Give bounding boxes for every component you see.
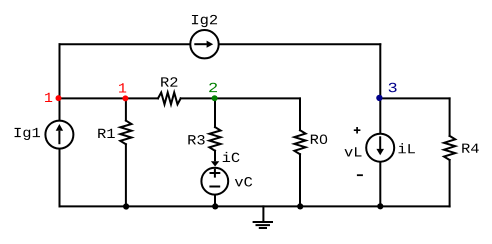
wire: top rail — [60, 43, 381, 45]
wire: R4 branch bottom — [449, 160, 451, 206]
wire: node3 to R4 top — [380, 97, 449, 99]
wire: node1 to R2 left — [60, 97, 159, 99]
label R3 — [188, 135, 204, 145]
wire: R1 branch top — [125, 98, 127, 120]
resistor R0 — [294, 130, 305, 154]
label Ig2 — [192, 15, 217, 27]
resistor R3 — [209, 127, 220, 151]
wire: bottom rail — [60, 205, 450, 207]
node 1 label (left) — [45, 93, 52, 102]
label R2 — [161, 77, 177, 86]
wire: R0 branch bottom — [299, 154, 301, 206]
node 2 label — [209, 83, 217, 92]
junction dot vC bottom — [212, 203, 218, 209]
junction dot R1 bottom — [123, 203, 129, 209]
node 3 dot — [376, 95, 382, 101]
wire: R0 branch top — [299, 98, 301, 130]
junction dot iL bottom — [377, 203, 383, 209]
current source Ig2 — [190, 30, 218, 58]
current source Ig1 — [45, 121, 73, 149]
node 1 label (at R1) — [119, 83, 126, 92]
wire: R1 branch bottom — [125, 144, 127, 206]
wire: right vertical through iL (node 3) — [379, 44, 381, 206]
label iL — [398, 143, 414, 153]
resistor R2 — [158, 93, 181, 105]
label R0 — [311, 135, 327, 145]
ground — [254, 206, 272, 228]
label vC — [235, 177, 252, 187]
label R4 — [462, 144, 478, 153]
wire: left vertical through Ig1 — [59, 44, 61, 206]
plus sign (vL polarity) — [354, 127, 361, 134]
current source iL — [366, 134, 394, 162]
voltage source vC — [201, 168, 228, 195]
wire: vC bottom to rail — [214, 196, 216, 207]
label vL — [345, 147, 362, 156]
wire: R2 right to R0 branch — [181, 97, 300, 99]
node 1 dot (left) — [56, 95, 62, 101]
label R1 — [98, 129, 115, 138]
resistor R1 — [120, 121, 131, 145]
label Ig1 — [15, 128, 40, 140]
arrowhead iC — [211, 161, 219, 166]
node 2 dot — [212, 95, 218, 101]
junction dot R0 bottom — [297, 203, 303, 209]
wire: R4 branch top — [449, 98, 451, 135]
wire: R3 to vC (iC arrow shaft) — [214, 151, 216, 161]
resistor R4 — [444, 136, 455, 160]
wire: node2 down to R3 — [214, 98, 216, 127]
minus sign (vL polarity) — [357, 174, 363, 176]
node 3 label — [389, 83, 397, 93]
node 1 dot (at R1) — [122, 95, 128, 101]
label iC — [223, 152, 240, 162]
